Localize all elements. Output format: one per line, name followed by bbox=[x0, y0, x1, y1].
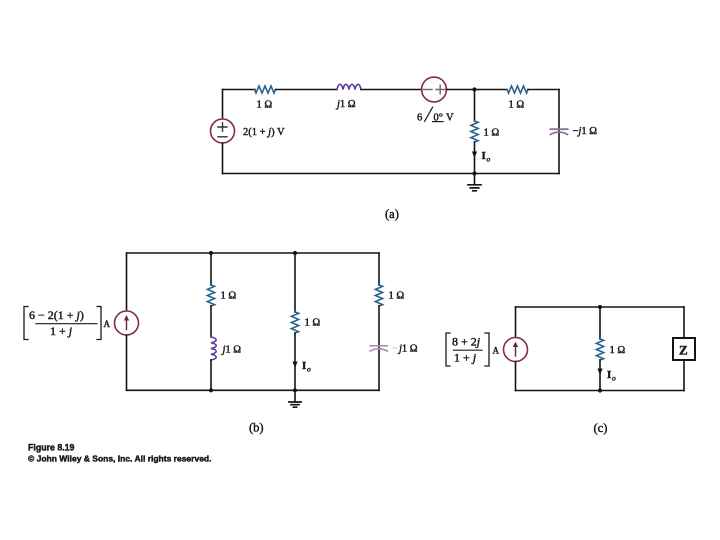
svg-text:6 − 2(1 + j): 6 − 2(1 + j) bbox=[29, 308, 84, 322]
wire: (c) left vertical above source bbox=[515, 307, 517, 338]
svg-text:6: 6 bbox=[417, 113, 422, 124]
wire: (b) left vertical below source bbox=[126, 335, 128, 390]
node: (b) branch1 top bbox=[209, 251, 213, 255]
wire: (a) top between R1 and L1 bbox=[276, 89, 338, 91]
wire: (b) top bbox=[127, 252, 380, 254]
svg-text:1 Ω: 1 Ω bbox=[221, 291, 237, 302]
inductor L1 j1ohm (a) bbox=[337, 84, 361, 89]
wire: (a) top-left segment from left corner to R1 bbox=[223, 89, 256, 91]
svg-text:o: o bbox=[612, 374, 616, 383]
wire: (a) bottom bbox=[223, 173, 560, 175]
svg-text:Z: Z bbox=[679, 343, 688, 358]
label source expression (c) bbox=[446, 333, 450, 366]
current source I1 (b) bbox=[115, 311, 139, 335]
node: (c) middle bottom bbox=[598, 388, 602, 392]
svg-text:1 Ω: 1 Ω bbox=[257, 100, 273, 111]
ground (b) bbox=[294, 390, 296, 402]
capacitor C2 j1ohm (b, right) bbox=[370, 345, 387, 347]
svg-text:−: − bbox=[392, 344, 398, 355]
wire: (b) branch2 bottom segment with Io arrow bbox=[294, 333, 296, 390]
svg-text:A: A bbox=[493, 346, 500, 356]
node: (c) middle top bbox=[598, 305, 602, 309]
wire: (c) right vertical below Z bbox=[683, 360, 685, 391]
svg-text:V: V bbox=[446, 113, 454, 124]
svg-text:1 + j: 1 + j bbox=[454, 351, 477, 365]
ground (a) bbox=[474, 174, 476, 185]
svg-text:Figure 8.19: Figure 8.19 bbox=[28, 443, 75, 453]
node: (b) branch2 top bbox=[293, 251, 297, 255]
wire: (b) left vertical above source bbox=[126, 253, 128, 311]
resistor R2 1ohm (a, top right) bbox=[507, 86, 528, 93]
svg-text:j1 Ω: j1 Ω bbox=[221, 345, 242, 356]
wire: (b) branch 3 (right) top segment bbox=[378, 253, 380, 285]
svg-text:1 Ω: 1 Ω bbox=[484, 128, 500, 139]
wire: (c) right vertical above Z bbox=[683, 307, 685, 338]
svg-text:j1 Ω: j1 Ω bbox=[335, 99, 356, 110]
wire: (b) right vertical through capacitor bbox=[378, 306, 380, 390]
resistor R6 1ohm (b, right) bbox=[375, 285, 382, 306]
wire: (b) branch1 middle segment bbox=[210, 306, 212, 337]
wire: (b) branch 2 top segment bbox=[294, 253, 296, 312]
wire: (a) top right corner segment bbox=[528, 89, 559, 91]
impedance box Z (c) bbox=[673, 338, 695, 360]
node: (b) branch1 bottom bbox=[209, 388, 213, 392]
wire: (c) left vertical below source bbox=[515, 362, 517, 391]
svg-text:I: I bbox=[482, 150, 486, 162]
svg-text:j1 Ω: j1 Ω bbox=[397, 344, 418, 355]
svg-text:I: I bbox=[302, 360, 306, 372]
current arrow Io (b) bbox=[292, 362, 297, 369]
svg-text:(c): (c) bbox=[594, 421, 608, 435]
resistor R7 1ohm (c, middle, Io) bbox=[596, 339, 603, 360]
label source expression (b) bbox=[24, 307, 28, 340]
wire: (a) right vertical bbox=[558, 90, 560, 174]
svg-text:1 + j: 1 + j bbox=[50, 324, 73, 338]
svg-text:1 Ω: 1 Ω bbox=[305, 318, 321, 329]
voltage source V2 6/_0 V (a, top) bbox=[422, 77, 447, 102]
svg-text:8 + 2j: 8 + 2j bbox=[452, 335, 481, 349]
current arrow Io (c) bbox=[597, 369, 602, 376]
svg-text:1 Ω: 1 Ω bbox=[509, 100, 525, 111]
inductor L2 j1ohm (b, branch1) bbox=[211, 337, 216, 360]
svg-text:A: A bbox=[104, 319, 111, 329]
svg-text:I: I bbox=[607, 369, 611, 381]
wire: (c) middle branch bottom with Io arrow bbox=[599, 360, 601, 391]
wire: (a) top between L1 and source V2 bbox=[361, 89, 422, 91]
svg-text:−j1 Ω: −j1 Ω bbox=[573, 126, 598, 137]
current source I2 (c) bbox=[504, 338, 528, 362]
svg-text:(b): (b) bbox=[249, 421, 264, 435]
wire: (c) middle branch top segment bbox=[599, 307, 601, 339]
node A (junction dot, top of Io branch) bbox=[472, 87, 476, 91]
voltage source V1 2(1+j) V (a, left) bbox=[222, 90, 224, 120]
current arrow Io (a) bbox=[472, 152, 477, 159]
resistor R1 1ohm (a, top left) bbox=[255, 86, 276, 93]
wire: (b) bottom bbox=[127, 389, 380, 391]
svg-text:2(1 + j) V: 2(1 + j) V bbox=[243, 127, 285, 138]
svg-text:(a): (a) bbox=[385, 207, 399, 221]
resistor R3 1ohm (a, middle vertical, Io branch) bbox=[471, 121, 478, 142]
node: (b) branch2 bottom bbox=[293, 388, 297, 392]
svg-text:1 Ω: 1 Ω bbox=[389, 291, 405, 302]
svg-text:o: o bbox=[307, 365, 311, 374]
wire: (c) top bbox=[516, 306, 685, 308]
wire: (a) top from V2 to node A and to R2 bbox=[447, 89, 508, 91]
wire: (b) branch1 bottom segment bbox=[210, 360, 212, 390]
wire: (a) middle branch bottom segment with Io arrow bbox=[474, 142, 476, 174]
svg-text:© John Wiley & Sons, Inc. All: © John Wiley & Sons, Inc. All rights res… bbox=[28, 454, 211, 464]
node: (a) bottom of Io branch bbox=[472, 171, 476, 175]
wire: (c) bottom bbox=[516, 390, 685, 392]
svg-text:1 Ω: 1 Ω bbox=[610, 345, 626, 356]
svg-text:o: o bbox=[487, 155, 491, 164]
resistor R5 1ohm (b, branch2, Io) bbox=[291, 312, 298, 333]
wire: (a) middle branch top segment bbox=[474, 90, 476, 122]
resistor R4 1ohm (b, branch1) bbox=[207, 285, 214, 306]
wire: (b) branch 1 top segment bbox=[210, 253, 212, 285]
capacitor C1 -j1ohm (a, right) bbox=[551, 128, 568, 130]
